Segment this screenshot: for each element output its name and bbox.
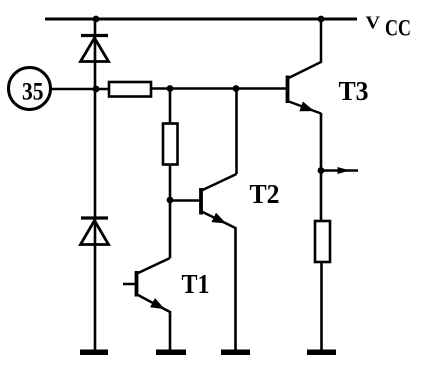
- wire middle vertical x=170: [169, 88, 172, 124]
- resistor R2 (middle vertical): [163, 124, 178, 165]
- wire below R3 to ground: [320, 261, 323, 350]
- svg-text:T2: T2: [250, 179, 280, 209]
- wire output stub: [322, 169, 358, 172]
- wire T2 collector vertical: [235, 89, 238, 175]
- ground (T2 emitter): [221, 349, 250, 355]
- junction dot T2 collector: [233, 85, 240, 92]
- svg-text:35: 35: [22, 79, 44, 106]
- resistor R1 (horizontal): [109, 82, 151, 97]
- transistor T3: [288, 19, 322, 114]
- wire left vertical (node 35 branch to ground): [94, 19, 97, 350]
- transistor T1: [123, 258, 170, 312]
- svg-text:T3: T3: [339, 76, 369, 106]
- wire T3 emitter vertical: [320, 113, 323, 222]
- wire resistor R1 right side to T3 base: [150, 87, 286, 90]
- junction dot output: [318, 167, 325, 174]
- output arrow: [338, 167, 351, 174]
- wire VCC rail: [45, 18, 357, 21]
- diode D2 (lower): [81, 218, 109, 245]
- junction dot rail-T3 collector: [318, 16, 325, 23]
- junction dot rail-left: [93, 16, 100, 23]
- junction dot node 35: [93, 86, 100, 93]
- ground (T1 emitter): [156, 349, 186, 355]
- junction dot R2 top: [167, 85, 174, 92]
- transistor T2: [201, 174, 237, 228]
- svg-text:V: V: [366, 12, 381, 32]
- wire middle vertical below R2: [169, 164, 172, 258]
- wire T2 emitter vertical: [234, 227, 237, 350]
- wire horizontal main from source to T3 base: [50, 88, 110, 91]
- wire T1 emitter vertical: [169, 311, 172, 350]
- svg-text:CC: CC: [385, 16, 411, 41]
- junction dot T2 base / T1 collector: [167, 197, 174, 204]
- ground (R3 bottom): [307, 349, 336, 355]
- wire T2 base stub: [170, 199, 200, 202]
- resistor R3 (right vertical): [315, 221, 330, 262]
- svg-text:T1: T1: [182, 269, 210, 299]
- ground (T1 branch via node 35 line): [80, 349, 108, 355]
- diode D1 (upper, anode below, cathode bar on top): [81, 36, 109, 62]
- node 35 terminal circle: [9, 68, 51, 110]
